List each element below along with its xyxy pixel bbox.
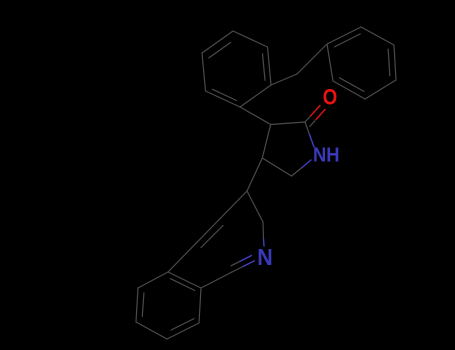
bond C5-N1 blue half bbox=[302, 160, 311, 168]
second benzene ring edges bbox=[327, 27, 361, 44]
bond C5-N1 gray half bbox=[292, 168, 303, 177]
bond C3-P1 to phenyl bbox=[240, 107, 271, 125]
imine N2=C1 gray half bbox=[232, 267, 243, 273]
long colinear bonds V6-a-b-D1 of azocine ring bbox=[168, 191, 247, 272]
svg-text:O: O bbox=[323, 85, 338, 110]
bond N1-C2 blue half bbox=[310, 135, 315, 148]
bond D2-N2 blue half bbox=[263, 239, 266, 246]
bond X-V1 to second benzene bbox=[297, 44, 327, 74]
second benzene inner double lines bbox=[335, 34, 361, 47]
carbonyl C2=O gray stubs bbox=[305, 117, 310, 123]
bond C3-C4 bbox=[262, 125, 270, 159]
svg-text:N: N bbox=[257, 244, 273, 270]
phenyl ring edges bbox=[206, 91, 241, 107]
benzo ring edges bbox=[199, 288, 201, 323]
carbonyl C2=O red double bond bbox=[311, 106, 321, 117]
bond P6-X bridge bbox=[271, 74, 297, 85]
phenyl inner double lines bbox=[213, 89, 237, 100]
benzo inner double lines bbox=[171, 279, 195, 291]
bond C4-C5 bbox=[262, 158, 291, 176]
lactam ring: bond C2-C3 bbox=[271, 122, 305, 125]
svg-text:NH: NH bbox=[313, 144, 340, 167]
inner double line a=b bbox=[201, 226, 223, 248]
bond D1-D2 bbox=[247, 191, 263, 222]
chain bond C4-D1 bbox=[247, 158, 262, 191]
imine N2=C1 blue halves bbox=[243, 261, 254, 267]
bond C1-R1 bbox=[201, 272, 232, 288]
bond N1-C2 gray half bbox=[305, 122, 310, 135]
bond D2-N2 gray half bbox=[262, 222, 265, 239]
